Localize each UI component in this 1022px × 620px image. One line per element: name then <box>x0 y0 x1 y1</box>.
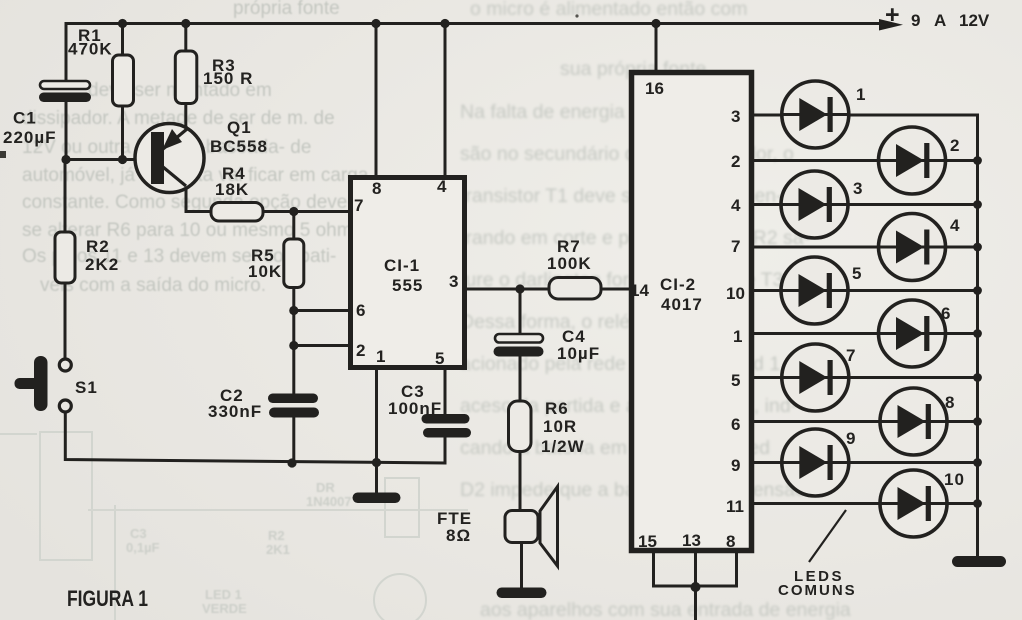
resistor R7 <box>549 278 601 300</box>
wire R2 leads <box>64 160 67 233</box>
wire LED row 10 <box>754 502 978 505</box>
svg-text:C3: C3 <box>130 526 147 541</box>
wire LED row 8 <box>754 420 978 423</box>
node R4/R5 <box>289 207 298 216</box>
LED 8 <box>880 388 955 455</box>
resistor R4 <box>211 203 263 222</box>
switch S1 <box>15 356 98 412</box>
svg-text:12V: 12V <box>959 11 990 30</box>
capacitor C2 <box>268 394 318 404</box>
bus junction dots <box>973 156 982 508</box>
LED 9 <box>782 429 857 496</box>
wire top supply rail <box>66 24 880 82</box>
svg-text:100nF: 100nF <box>388 399 442 418</box>
svg-text:4: 4 <box>731 196 741 215</box>
wire base of Q1 <box>66 158 152 161</box>
wire C3 to bottom rail <box>444 438 447 464</box>
svg-text:18K: 18K <box>215 180 249 199</box>
svg-text:6: 6 <box>731 415 740 434</box>
svg-text:11: 11 <box>726 497 744 516</box>
resistor R2 <box>55 232 75 283</box>
svg-text:A: A <box>934 11 946 30</box>
svg-text:13: 13 <box>682 531 701 550</box>
LEDs <box>781 81 965 537</box>
LED 6 <box>879 300 952 367</box>
counter IC CI-2 4017 <box>630 73 752 552</box>
svg-text:1/2W: 1/2W <box>541 437 585 456</box>
resistor R1 <box>113 55 134 106</box>
node C1/base <box>61 155 70 164</box>
svg-text:1: 1 <box>733 327 742 346</box>
wire R3 leads <box>184 24 187 53</box>
supply arrow head <box>879 19 903 31</box>
wire LED row 1 <box>754 114 978 117</box>
svg-text:1: 1 <box>376 347 385 366</box>
node pin1/ground <box>372 458 381 467</box>
svg-text:4: 4 <box>950 216 960 235</box>
wire 4017 pin16 <box>655 24 658 72</box>
ground under speaker <box>497 588 547 599</box>
wire S1 to bottom rail <box>65 413 445 464</box>
op IC CI-1 555 <box>351 177 465 368</box>
svg-text:10µF: 10µF <box>557 344 600 363</box>
wire C1 lower lead <box>65 101 68 160</box>
ground under LED bus <box>952 556 1006 567</box>
small scan speck <box>575 14 578 17</box>
faded bleed-through text, left column <box>22 0 369 296</box>
wire 4017 pins 15,13,8 common <box>654 553 737 586</box>
wire common cathode bus <box>976 115 979 556</box>
svg-text:3: 3 <box>853 179 863 198</box>
wire LED row 9 <box>754 461 978 464</box>
svg-text:FIGURA 1: FIGURA 1 <box>67 586 148 611</box>
svg-text:1N4007: 1N4007 <box>306 494 352 509</box>
svg-text:2K2: 2K2 <box>85 255 119 274</box>
svg-text:9: 9 <box>846 429 856 448</box>
svg-text:2: 2 <box>356 341 365 360</box>
wire LED row 7 <box>754 376 978 379</box>
svg-text:9: 9 <box>911 11 920 30</box>
node R1 top <box>118 19 127 28</box>
capacitor C1 <box>40 81 90 89</box>
svg-text:6: 6 <box>356 301 365 320</box>
svg-text:0,1µF: 0,1µF <box>126 540 160 555</box>
transistor Q1 <box>135 118 268 193</box>
wire pin3 to R7 <box>467 288 549 291</box>
svg-text:3: 3 <box>449 272 458 291</box>
svg-text:COMUNS: COMUNS <box>778 582 857 599</box>
svg-text:CI-2: CI-2 <box>660 275 696 294</box>
svg-text:10: 10 <box>726 284 745 303</box>
wire R4 to pin7 <box>263 210 348 213</box>
node pin16 top <box>651 19 660 28</box>
svg-text:16: 16 <box>645 79 664 98</box>
LED 3 <box>781 171 863 238</box>
svg-text:470K: 470K <box>68 40 113 59</box>
svg-text:14: 14 <box>630 281 649 300</box>
resistor R6 <box>509 401 532 452</box>
resistor R3 <box>175 51 197 104</box>
svg-text:R2: R2 <box>86 237 110 256</box>
svg-text:C1: C1 <box>13 109 37 128</box>
svg-text:150 R: 150 R <box>203 69 253 88</box>
wire speaker to ground <box>520 543 523 588</box>
svg-text:10R: 10R <box>543 417 577 436</box>
wire pin1 to ground <box>375 370 378 491</box>
wire R5 leads <box>292 212 295 240</box>
svg-text:VERDE: VERDE <box>202 601 247 616</box>
LED 7 <box>782 344 857 411</box>
wire C2 leads <box>292 346 295 395</box>
svg-text:5: 5 <box>731 371 740 390</box>
svg-text:8Ω: 8Ω <box>446 526 471 545</box>
svg-text:CI-1: CI-1 <box>384 256 420 275</box>
svg-text:2K1: 2K1 <box>266 542 290 557</box>
speaker FTE <box>437 487 558 567</box>
wire 555 pin8 <box>375 24 378 176</box>
svg-text:330nF: 330nF <box>208 402 262 421</box>
label +9 A 12V <box>885 1 990 30</box>
svg-text:LED 1: LED 1 <box>205 587 242 602</box>
svg-text:7: 7 <box>846 346 856 365</box>
svg-text:7: 7 <box>354 196 363 215</box>
svg-text:aos aparelhos com sua entrada: aos aparelhos com sua entrada de energia <box>480 599 851 620</box>
node pin6 <box>289 306 298 315</box>
wire R6 to speaker <box>519 452 522 512</box>
wire R7 to pin14 <box>601 288 629 291</box>
svg-text:5: 5 <box>435 349 444 368</box>
LED 1 <box>782 81 867 148</box>
node R1/base <box>118 155 127 164</box>
svg-text:R2: R2 <box>268 528 285 543</box>
wire LED row 2 <box>754 159 978 162</box>
svg-text:constante. Como segunda opção: constante. Como segunda opção deve- <box>22 192 354 213</box>
svg-text:555: 555 <box>392 276 423 295</box>
svg-text:R6: R6 <box>545 399 569 418</box>
svg-text:o micro é alimentado então com: o micro é alimentado então com <box>470 0 747 20</box>
LED 5 <box>781 257 862 324</box>
svg-text:S1: S1 <box>75 378 98 397</box>
wire R1 leads <box>121 24 124 57</box>
node pin8 top <box>371 19 380 28</box>
wire LED row 5 <box>754 289 978 292</box>
resistor R5 <box>284 239 304 288</box>
ground under pin1 <box>353 493 401 504</box>
node pin3/R7/C4 <box>515 284 524 293</box>
svg-text:100K: 100K <box>547 254 592 273</box>
node R3 top <box>181 19 190 28</box>
svg-text:Q1: Q1 <box>227 118 252 137</box>
svg-text:10K: 10K <box>248 262 282 281</box>
svg-text:própria fonte: própria fonte <box>233 0 340 19</box>
wire LED row 6 <box>754 332 978 335</box>
node pin4 top <box>440 19 449 28</box>
wire pin5 to C3 <box>444 370 447 414</box>
svg-text:8: 8 <box>372 179 381 198</box>
capacitor C4 <box>495 334 543 343</box>
capacitor C3 <box>422 414 470 424</box>
wire collector to R4 <box>186 186 211 212</box>
svg-text:4: 4 <box>437 177 447 196</box>
LED 10 <box>880 470 965 537</box>
svg-text:5: 5 <box>852 264 862 283</box>
wire pin2 <box>294 344 348 347</box>
svg-text:2: 2 <box>731 152 740 171</box>
label LEDS COMUNS with pointer <box>778 510 857 599</box>
LED 2 <box>879 127 961 194</box>
LED row wires <box>754 115 978 556</box>
svg-text:3: 3 <box>731 107 740 126</box>
node pins 15-13-8 <box>691 582 701 592</box>
svg-text:8: 8 <box>726 532 735 551</box>
svg-text:2: 2 <box>950 136 960 155</box>
faded bleed-through figure, bottom-left <box>0 432 468 620</box>
wire LED row 3 <box>754 203 978 206</box>
node C2 bottom <box>287 458 296 467</box>
svg-text:BC558: BC558 <box>210 137 268 156</box>
svg-text:1: 1 <box>856 85 866 104</box>
node pin2 <box>289 341 298 350</box>
svg-text:10: 10 <box>944 470 965 489</box>
svg-text:7: 7 <box>731 237 740 256</box>
wire C4 upper lead <box>519 289 522 334</box>
faded bleed-through text, right column <box>460 0 851 620</box>
LED 4 <box>879 214 961 281</box>
svg-text:9: 9 <box>731 456 740 475</box>
svg-text:DR: DR <box>316 480 335 495</box>
svg-text:4017: 4017 <box>661 295 703 314</box>
svg-text:8: 8 <box>945 393 955 412</box>
svg-text:6: 6 <box>941 304 951 323</box>
svg-text:220µF: 220µF <box>3 128 57 147</box>
svg-text:+: + <box>885 1 900 29</box>
svg-text:15: 15 <box>638 532 657 551</box>
wire C4 to R6 <box>519 357 522 402</box>
wire 555 pin4 <box>444 24 447 176</box>
wire LED row 4 <box>754 246 978 249</box>
wire pin6 <box>294 309 348 312</box>
